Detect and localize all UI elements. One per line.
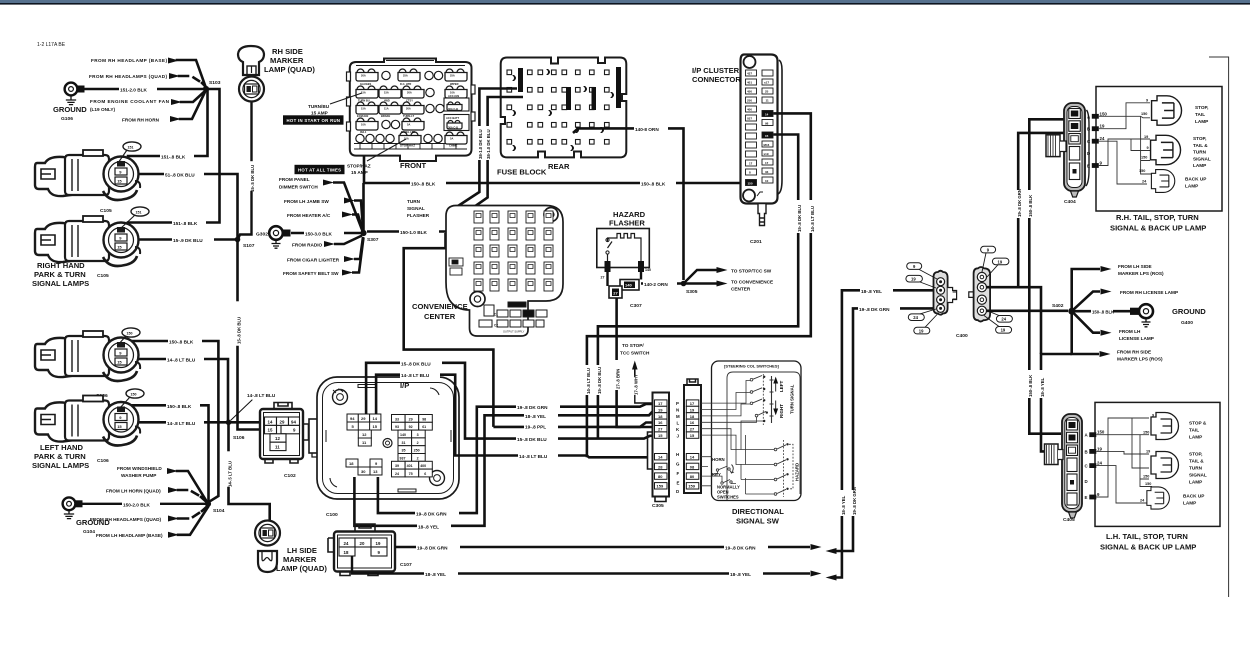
wire RH side marker down to S107 [239, 101, 256, 238]
fuse block FRONT fuses [356, 69, 469, 144]
svg-text:27: 27 [601, 276, 605, 280]
svg-text:24: 24 [344, 541, 349, 546]
svg-text:D: D [676, 489, 679, 494]
fuse block FRONT outline [347, 59, 476, 162]
C305 letter column [676, 401, 680, 494]
svg-text:25A: 25A [450, 74, 455, 78]
connector C201 pins [746, 70, 774, 186]
arrow to stop-tcc sw [684, 267, 772, 284]
svg-text:94: 94 [350, 416, 355, 421]
wire flasher to 19-.8 PPL staircase [404, 233, 494, 427]
title directional signal sw [732, 507, 784, 526]
wire S402 up to from-lh-side-marker [1072, 264, 1164, 308]
connector lamp LH2 park turn [35, 389, 144, 446]
svg-text:19-.8 DK GRN: 19-.8 DK GRN [1017, 189, 1022, 217]
title right hand park turn signal lamps [32, 261, 89, 288]
connector C307 pin27 [608, 271, 642, 309]
wire 150-3.0 BLK G302 to S307 [291, 230, 361, 237]
svg-text:P: P [676, 401, 679, 406]
C400 left half pin tags [906, 263, 938, 334]
svg-text:150: 150 [131, 393, 137, 397]
svg-text:037: 037 [747, 117, 752, 121]
svg-text:20A: 20A [361, 74, 366, 78]
wire from-panel-dimmer-switch to S307 [333, 183, 363, 232]
svg-text:08: 08 [690, 464, 695, 469]
svg-text:15: 15 [658, 433, 663, 438]
C400 right half pin tags [981, 246, 1013, 333]
svg-text:L.H. TAIL, STOP, TURN: L.H. TAIL, STOP, TURN [1106, 532, 1188, 541]
svg-text:19-.8 DK GRN: 19-.8 DK GRN [852, 487, 857, 515]
svg-text:C405: C405 [1063, 517, 1075, 523]
svg-text:FROM LH: FROM LH [1119, 329, 1141, 334]
svg-text:18-.8 YEL: 18-.8 YEL [1040, 377, 1045, 397]
svg-text:19-.8 DK GRN: 19-.8 DK GRN [859, 307, 890, 312]
right page border line [1209, 57, 1229, 597]
svg-text:S305: S305 [686, 289, 698, 295]
svg-text:STOP,: STOP, [1195, 105, 1208, 110]
svg-text:17: 17 [690, 401, 695, 406]
node S305 [681, 281, 698, 295]
svg-text:M16: M16 [764, 143, 770, 147]
wire 18-.8 YEL C400 to rear arrow [826, 287, 934, 581]
svg-text:250: 250 [414, 449, 420, 453]
svg-text:15: 15 [373, 424, 378, 429]
svg-text:20A: 20A [406, 107, 411, 111]
svg-text:29: 29 [361, 416, 366, 421]
svg-text:PARK & TURN: PARK & TURN [34, 270, 86, 279]
svg-text:CONVENIENCE: CONVENIENCE [412, 302, 468, 311]
svg-text:401: 401 [407, 464, 413, 468]
svg-text:FROM RH SIDE: FROM RH SIDE [1117, 350, 1151, 355]
svg-text:TO STOP/TCC SW: TO STOP/TCC SW [731, 269, 772, 274]
svg-text:S106: S106 [233, 435, 245, 441]
svg-text:38-1.0 DK BLU: 38-1.0 DK BLU [486, 129, 491, 159]
wire C400 pin4 to S402 [987, 309, 1069, 312]
svg-text:MARKER: MARKER [283, 555, 317, 564]
svg-text:19-.8 PPL: 19-.8 PPL [525, 424, 546, 429]
svg-text:140-2 ORN: 140-2 ORN [644, 282, 668, 287]
svg-text:140: 140 [645, 268, 651, 272]
wire S307 up to 150-.8 BLK junction [362, 183, 365, 231]
svg-text:15-.5 DK BLU: 15-.5 DK BLU [250, 165, 255, 192]
svg-text:SWITCHES: SWITCHES [717, 495, 739, 500]
svg-text:18-.8 YEL: 18-.8 YEL [730, 572, 751, 577]
svg-text:14: 14 [373, 416, 378, 421]
svg-text:LH SIDE: LH SIDE [287, 546, 317, 555]
svg-text:28: 28 [658, 464, 663, 469]
svg-text:DIRECTIONAL: DIRECTIONAL [732, 507, 784, 516]
wire from-lh-horn-quad to S104 (dashed) [178, 490, 206, 502]
svg-text:14-.8 LT BLU: 14-.8 LT BLU [519, 454, 548, 459]
svg-text:19: 19 [658, 407, 663, 412]
svg-text:150-.8 BLK: 150-.8 BLK [641, 182, 666, 187]
svg-text:INJ-1: INJ-1 [360, 130, 367, 134]
svg-text:G106: G106 [61, 116, 73, 122]
RH box bulb lead numbers [1139, 99, 1149, 184]
svg-text:F: F [677, 471, 680, 476]
wire S402 to from-lh-license [1072, 311, 1154, 341]
svg-text:401: 401 [747, 81, 752, 85]
svg-text:27-.8 BRN: 27-.8 BRN [616, 369, 621, 389]
svg-text:HOT IN START OR RUN: HOT IN START OR RUN [287, 118, 341, 123]
svg-text:20: 20 [360, 541, 365, 546]
wire RH lamp1 DK BLU to S107 vertical [128, 171, 238, 237]
LH box bulb lead numbers [1140, 414, 1155, 503]
svg-text:13: 13 [373, 469, 378, 474]
node S107 [235, 237, 255, 249]
svg-text:TURN/BU: TURN/BU [308, 104, 330, 109]
wire from-safety-belt-sw to S307 [352, 238, 364, 273]
bulb LH stop tail [1151, 413, 1207, 440]
svg-text:C307: C307 [630, 303, 642, 309]
svg-text:TURN: TURN [407, 199, 421, 204]
svg-text:LEFT: LEFT [779, 381, 784, 392]
wire C201 pin15 15-.8 DK BLU down-left to C305 [597, 135, 802, 439]
title RH tail stop turn [1110, 213, 1206, 233]
wire from-cigar-lighter to S307 [354, 237, 363, 259]
relay bracket between C102 and C100 [309, 419, 322, 457]
svg-text:19: 19 [1144, 135, 1148, 139]
svg-text:REAR: REAR [548, 162, 570, 171]
svg-text:14-.8 LT BLU: 14-.8 LT BLU [586, 368, 591, 394]
top header bar [0, 0, 1250, 3]
ground G400 and wire 150-.8 BLK [1075, 304, 1206, 327]
svg-text:TCC SWITCH: TCC SWITCH [620, 351, 650, 356]
svg-text:MARKER LPS (ROS): MARKER LPS (ROS) [1118, 271, 1164, 276]
svg-text:G104: G104 [83, 529, 95, 535]
C405 pin letters and terminals [1085, 430, 1105, 500]
svg-text:I/P CLUSTER: I/P CLUSTER [692, 66, 740, 75]
svg-text:150: 150 [1143, 430, 1149, 434]
fuse block REAR outline [501, 58, 627, 158]
node S104 [205, 501, 225, 514]
arrow to convenience center [684, 280, 774, 292]
title I/P cluster connector [692, 66, 741, 84]
svg-text:BACK UP: BACK UP [1183, 494, 1204, 499]
svg-text:HORN: HORN [712, 457, 725, 462]
svg-text:ACC-IGN: ACC-IGN [448, 94, 459, 98]
title LH tail stop turn [1100, 532, 1196, 552]
svg-text:14-.8 LT BLU: 14-.8 LT BLU [401, 373, 430, 378]
svg-text:C1: C1 [494, 313, 498, 317]
hazard flasher box [597, 229, 651, 280]
svg-text:1-2 L17A BE: 1-2 L17A BE [37, 42, 66, 48]
svg-text:19-.8 DK GRN: 19-.8 DK GRN [725, 546, 756, 551]
svg-text:5A: 5A [407, 123, 410, 127]
svg-text:5A: 5A [450, 137, 453, 141]
svg-text:15A: 15A [384, 91, 389, 95]
svg-text:14-.8 LT BLU: 14-.8 LT BLU [247, 393, 276, 398]
wire 38-1.0 DK BLU right [461, 97, 523, 216]
svg-text:15-.9 DK BLU: 15-.9 DK BLU [173, 238, 203, 243]
connector lamp RH1 park turn [35, 142, 141, 200]
svg-text:19: 19 [919, 329, 924, 334]
svg-text:TURN: TURN [1193, 150, 1207, 155]
svg-text:ECM-IGN: ECM-IGN [357, 114, 368, 118]
wire S103 right-down to RH lamp2 151-.8 BLK [128, 89, 220, 226]
ground G106 ring terminal [53, 83, 87, 122]
svg-text:151: 151 [136, 211, 142, 215]
svg-text:150-3.0 BLK: 150-3.0 BLK [305, 232, 332, 237]
svg-text:LAMP: LAMP [1189, 480, 1202, 485]
title LH side marker lamp [276, 546, 327, 573]
wire from-lh-jamb-sw to S307 [354, 201, 363, 230]
svg-text:G: G [676, 462, 680, 467]
svg-text:30A C-B: 30A C-B [448, 107, 458, 111]
svg-text:16: 16 [658, 420, 663, 425]
svg-text:150: 150 [1145, 482, 1151, 486]
svg-text:TURN SIGNAL: TURN SIGNAL [790, 384, 795, 414]
svg-text:FLASHER: FLASHER [407, 213, 430, 218]
svg-text:151-.8 BLK: 151-.8 BLK [173, 221, 198, 226]
svg-text:18: 18 [690, 414, 695, 419]
svg-text:FROM LH SIDE: FROM LH SIDE [1118, 264, 1152, 269]
svg-text:FROM WINDSHIELD: FROM WINDSHIELD [117, 466, 162, 471]
svg-text:HOT AT ALL TIMES: HOT AT ALL TIMES [298, 168, 341, 173]
svg-text:4WD: 4WD [384, 99, 390, 103]
svg-text:150-.8 BLK: 150-.8 BLK [411, 182, 436, 187]
svg-text:RH SIDE: RH SIDE [272, 47, 303, 56]
svg-text:30: 30 [361, 469, 366, 474]
svg-text:150: 150 [1139, 169, 1145, 173]
svg-text:18-.8 YEL: 18-.8 YEL [861, 289, 882, 294]
LH box internal wiring [1096, 418, 1152, 503]
node S106 [226, 420, 245, 442]
svg-text:FROM LH JAMB SW: FROM LH JAMB SW [284, 199, 329, 204]
svg-text:STOP/HAZ: STOP/HAZ [347, 164, 371, 169]
svg-text:LAMP: LAMP [1195, 119, 1208, 124]
ground G302 ring terminal [256, 226, 291, 248]
svg-text:18: 18 [344, 550, 349, 555]
svg-text:MARKER: MARKER [270, 56, 304, 65]
bulb LH backup [1147, 487, 1204, 509]
svg-text:92: 92 [409, 425, 413, 429]
svg-text:19: 19 [911, 277, 916, 282]
svg-text:E: E [677, 481, 680, 486]
svg-text:LAMP: LAMP [1189, 435, 1202, 440]
svg-text:27: 27 [690, 427, 695, 432]
wire S107 down 15-.8 DK BLU to C102 pin15 [237, 242, 263, 430]
svg-text:TURN BU: TURN BU [358, 99, 370, 103]
svg-text:G400: G400 [1181, 320, 1193, 326]
svg-text:61: 61 [422, 425, 426, 429]
svg-text:C201: C201 [750, 239, 762, 245]
svg-text:FROM RH HEADLAMP (BASE): FROM RH HEADLAMP (BASE) [91, 58, 167, 63]
wire 19-.8 DK GRN C107 to rear arrows [395, 544, 822, 551]
svg-text:E: E [1087, 164, 1090, 169]
svg-text:TO STOP/: TO STOP/ [622, 343, 644, 348]
svg-text:FROM LH HEADLAMP (BASE): FROM LH HEADLAMP (BASE) [96, 533, 163, 538]
svg-text:19-.8 DK GRN: 19-.8 DK GRN [417, 546, 448, 551]
switch interior labels [701, 378, 800, 500]
svg-text:CENTER: CENTER [731, 287, 751, 292]
wire 15-.8 DK BLU long to C305 [495, 435, 654, 442]
svg-text:19: 19 [690, 407, 695, 412]
wire from-engine-coolant-fan to S103 [181, 91, 205, 102]
svg-text:BRAKE: BRAKE [381, 114, 390, 118]
svg-text:D: D [1085, 479, 1088, 484]
svg-text:10: 10 [765, 179, 769, 183]
svg-text:SIGNAL SW: SIGNAL SW [736, 517, 780, 526]
wire from-rh-horn to S103 [180, 92, 205, 119]
connector C201 body [741, 55, 783, 226]
svg-text:SIGNAL LAMPS: SIGNAL LAMPS [32, 279, 89, 288]
svg-text:FROM RADIO: FROM RADIO [292, 243, 323, 248]
svg-text:150: 150 [127, 332, 133, 336]
C100 center bolt circle [383, 439, 392, 448]
title RH side marker lamp [264, 47, 315, 74]
svg-text:150: 150 [1143, 475, 1149, 479]
svg-text:30A C-B: 30A C-B [448, 126, 458, 130]
connector C102 [260, 403, 309, 464]
wire S402 down to from-rh-side-marker and 18-.8 YEL [1040, 314, 1163, 451]
node S402 [1052, 303, 1075, 315]
svg-text:LAMP: LAMP [1193, 163, 1206, 168]
wire LH lamp4 150 BLK to S104 [128, 405, 209, 500]
svg-text:17: 17 [765, 161, 769, 165]
wire 19-.8 PPL flasher to C305 (label) [493, 422, 654, 429]
label STOP-HAZ 15 AMP with pointer [347, 139, 406, 175]
LH tail lamp box [1095, 402, 1220, 526]
svg-text:18-.8 YEL: 18-.8 YEL [841, 495, 846, 515]
svg-text:RIGHT HAND: RIGHT HAND [37, 261, 85, 270]
wire S402 to from-rh-license [1072, 289, 1178, 312]
svg-text:PARK & TURN: PARK & TURN [34, 452, 86, 461]
svg-text:140: 140 [400, 433, 406, 437]
svg-text:14: 14 [765, 112, 769, 116]
svg-text:FROM CIGAR LIGHTER: FROM CIGAR LIGHTER [287, 258, 340, 263]
svg-text:27: 27 [658, 427, 663, 432]
svg-text:140-8 ORN: 140-8 ORN [635, 127, 659, 132]
svg-text:151-.8 BLK: 151-.8 BLK [161, 155, 186, 160]
svg-text:S104: S104 [213, 508, 225, 514]
svg-text:400: 400 [420, 464, 426, 468]
wire 140-2 ORN C307 to S305 [641, 280, 681, 287]
wire from-windshield-washer-pump to S104 [177, 471, 207, 502]
svg-text:16: 16 [690, 420, 695, 425]
title convenience center [412, 302, 468, 321]
svg-text:C400: C400 [956, 333, 968, 339]
svg-text:HAZARD: HAZARD [795, 463, 800, 481]
svg-text:39: 39 [395, 464, 399, 468]
svg-text:24: 24 [913, 315, 918, 320]
svg-text:14: 14 [690, 455, 695, 460]
svg-text:SIGNAL LAMPS: SIGNAL LAMPS [32, 461, 89, 470]
lamp RH side marker socket [239, 77, 264, 102]
svg-text:FROM RH HEADLAMPS (QUAD): FROM RH HEADLAMPS (QUAD) [89, 74, 167, 79]
wire from-heater-ac to S307 [352, 215, 363, 231]
connector C307 pin140 [620, 271, 641, 290]
svg-text:11A: 11A [384, 107, 389, 111]
svg-text:94: 94 [291, 419, 296, 424]
svg-text:2: 2 [417, 441, 419, 445]
svg-text:33: 33 [765, 170, 769, 174]
title hazard flasher [609, 210, 646, 228]
svg-text:24: 24 [1097, 461, 1102, 466]
svg-text:CENTER: CENTER [424, 312, 456, 321]
svg-text:TAIL: TAIL [1189, 428, 1199, 433]
title left hand park turn signal lamps [32, 443, 89, 470]
svg-text:9: 9 [1146, 99, 1148, 103]
svg-text:437: 437 [747, 72, 752, 76]
svg-text:BACK UP: BACK UP [1185, 177, 1206, 182]
wire 19-.8 DK GRN C400 to rear arrow [826, 305, 934, 554]
wire C400 pin2 to 18-.8 YEL down (via x=1041.8) [987, 287, 1042, 354]
svg-text:H: H [676, 452, 679, 457]
wire 18-.8 YEL C107 to rear arrows [352, 556, 822, 577]
title turn signal flasher [407, 199, 430, 218]
svg-text:M: M [676, 414, 680, 419]
svg-text:150-.8 BLK: 150-.8 BLK [169, 340, 194, 345]
svg-text:L: L [677, 421, 680, 426]
svg-text:98: 98 [422, 417, 426, 421]
svg-text:12: 12 [362, 432, 367, 437]
svg-text:S307: S307 [367, 237, 379, 243]
svg-text:OUTPUT SUPPLY: OUTPUT SUPPLY [503, 330, 525, 334]
svg-text:19: 19 [998, 259, 1003, 264]
svg-text:TURN-LT: TURN-LT [403, 114, 414, 118]
connector C400 right half [969, 267, 990, 322]
connector C100 body [317, 377, 459, 499]
svg-text:51-.8 DK BLU: 51-.8 DK BLU [165, 173, 195, 178]
connector C400 left half [934, 271, 957, 315]
svg-text:LAMP: LAMP [1183, 501, 1196, 506]
wire LH lamp3 LT BLU down to S106 [128, 359, 228, 419]
svg-text:159: 159 [657, 484, 664, 489]
svg-text:SIGNAL: SIGNAL [407, 206, 425, 211]
svg-text:N: N [676, 408, 679, 413]
wire S106 down 14-.5 LT BLU to LH side marker [228, 424, 270, 521]
svg-text:FROM RH HEADLAMPS (QUAD): FROM RH HEADLAMPS (QUAD) [90, 517, 162, 522]
svg-text:29: 29 [409, 417, 413, 421]
svg-text:WASHER PUMP: WASHER PUMP [121, 473, 156, 478]
wire 14-.8 LT BLU hook into C100 [376, 371, 490, 455]
wire RH lamp2 DK BLU to S107 [128, 236, 234, 243]
svg-text:150-.8 BLK: 150-.8 BLK [1028, 374, 1033, 397]
svg-text:19: 19 [376, 541, 381, 546]
wire from-rh-headlamps-quad to S103 (dashed) [179, 76, 206, 87]
svg-text:19: 19 [1097, 446, 1102, 451]
convenience center C1 C2 strips [479, 302, 547, 334]
svg-text:15A: 15A [361, 107, 366, 111]
wire 140-8 ORN rear fuse to S305 [573, 125, 684, 280]
svg-text:SIGNAL & BACK UP LAMP: SIGNAL & BACK UP LAMP [1100, 543, 1196, 552]
svg-text:20A: 20A [407, 91, 412, 95]
svg-text:19: 19 [1001, 328, 1006, 333]
svg-text:CONNECTOR: CONNECTOR [692, 75, 741, 84]
svg-text:TAIL &: TAIL & [1193, 143, 1208, 148]
svg-text:150: 150 [1141, 156, 1147, 160]
svg-text:ACC BATT: ACC BATT [446, 116, 459, 120]
svg-text:937: 937 [400, 456, 406, 460]
svg-text:400: 400 [747, 108, 752, 112]
wire 15-.8 DK BLU hook into C100 [366, 359, 495, 438]
svg-text:159: 159 [688, 484, 695, 489]
svg-text:15A: 15A [361, 91, 366, 95]
svg-text:14-.5 LT BLU: 14-.5 LT BLU [228, 461, 233, 487]
wire C201 pin14 14-.8 LT BLU down-left to C305 [586, 113, 815, 457]
svg-text:15: 15 [765, 134, 769, 138]
svg-text:SIGNAL: SIGNAL [1189, 473, 1207, 478]
svg-text:FLASHER: FLASHER [609, 219, 645, 228]
svg-text:CHIME: CHIME [449, 144, 458, 148]
bulb RH stop tail turn [1151, 135, 1211, 168]
svg-text:17: 17 [749, 162, 753, 166]
svg-text:C106: C106 [97, 458, 109, 464]
svg-text:B: B [1087, 127, 1090, 132]
directional signal switch box [712, 361, 802, 501]
svg-text:S103: S103 [209, 80, 221, 86]
